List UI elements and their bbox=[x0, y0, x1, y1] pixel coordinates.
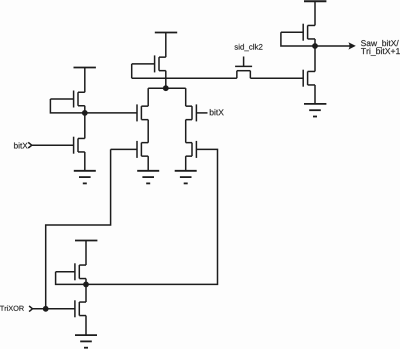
label sid_clk2 bbox=[235, 44, 263, 51]
label Tri_bitX+1 bbox=[361, 48, 400, 56]
wire P1 source bbox=[84, 106, 86, 113]
wire N5 source bbox=[185, 156, 187, 171]
transistor P4 bbox=[56, 263, 86, 280]
node B dot bbox=[163, 85, 169, 91]
node E dot bbox=[43, 306, 49, 312]
wire node A to N2 gate bbox=[85, 112, 137, 114]
ground G2 bbox=[137, 171, 159, 184]
label TriXOR bbox=[0, 306, 24, 311]
wire rail right drop bbox=[185, 88, 187, 106]
transistor Q1 pass gate bbox=[235, 57, 252, 79]
ground G3 bbox=[175, 171, 197, 184]
wire vdd4 stem bbox=[85, 241, 87, 266]
wire N2 to N3 bbox=[147, 120, 149, 143]
wire N6 source bbox=[314, 85, 316, 104]
wire N5 gate loop to node C bbox=[86, 149, 218, 284]
vdd bar bottom bbox=[75, 240, 97, 242]
wire P3 gate loop bbox=[281, 32, 315, 46]
node C dot bbox=[83, 282, 89, 288]
vdd bar middle bbox=[155, 32, 177, 34]
node A dot bbox=[82, 110, 88, 116]
transistor N1 bbox=[74, 137, 85, 154]
pin output arrow bbox=[348, 42, 355, 49]
wire P4 source bbox=[85, 279, 87, 285]
transistor N6 bbox=[303, 70, 315, 87]
ground G1 bbox=[74, 171, 96, 184]
wire P1 gate loop bbox=[50, 99, 84, 113]
label bitX input bbox=[14, 142, 27, 148]
label Saw_bitX bbox=[361, 40, 399, 48]
wire P3 source bbox=[314, 39, 316, 46]
transistor P1 bbox=[50, 91, 84, 108]
wire N1 source bbox=[84, 152, 86, 171]
wire N7 source bbox=[85, 316, 87, 336]
wire long net left segment bbox=[132, 77, 237, 79]
wire N4 to N5 bbox=[185, 120, 187, 143]
label bitX right bbox=[210, 109, 224, 115]
wire node D to N6 bbox=[314, 46, 316, 71]
pin TriXOR chevron bbox=[29, 306, 32, 312]
transistor P2 bbox=[132, 55, 166, 72]
node D dot bbox=[312, 43, 318, 49]
wire P4 gate loop bbox=[56, 272, 86, 285]
wire node C to N7 bbox=[85, 284, 87, 302]
wire N3 gate loop down bbox=[46, 149, 111, 308]
wire N3 gate bbox=[111, 148, 137, 150]
ground G5 bbox=[75, 335, 97, 348]
vdd bar left bbox=[74, 67, 96, 69]
wire branch rail bbox=[148, 87, 186, 89]
wire output bbox=[315, 45, 352, 47]
transistor N3 bbox=[137, 141, 148, 158]
wire long net right segment bbox=[250, 77, 303, 79]
wire vdd2 stem bbox=[165, 33, 167, 58]
transistor N5 bbox=[186, 141, 197, 158]
pin bitX chevron bbox=[28, 142, 32, 148]
wire bitX bbox=[32, 144, 74, 146]
ground G4 bbox=[304, 104, 326, 117]
vdd bar right bbox=[304, 0, 326, 2]
wire node A to N1 drain bbox=[84, 113, 86, 139]
wire vdd1 stem bbox=[84, 68, 86, 93]
transistor N4 bbox=[186, 104, 208, 121]
wire TriXOR bbox=[33, 308, 75, 310]
wire vdd3 stem bbox=[314, 1, 316, 25]
wire rail left drop bbox=[147, 88, 149, 106]
transistor P3 bbox=[281, 24, 315, 41]
wire N3 source bbox=[147, 156, 149, 171]
wire P2 source to node B bbox=[165, 71, 167, 89]
transistor N7 bbox=[75, 300, 86, 317]
transistor N2 bbox=[137, 104, 148, 121]
wire P2 gate loop vertical bbox=[131, 64, 133, 78]
